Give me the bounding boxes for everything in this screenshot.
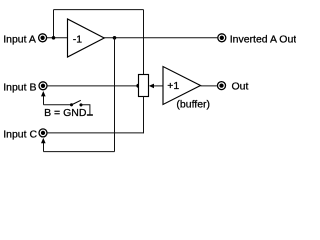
wire: potentiometer bottom to Input C run [143,97,145,134]
wire: inverted A drop line [114,38,116,152]
node: junction dot on Input A wire [52,36,56,40]
terminal: Input A [39,34,47,42]
switch SW1 right contact [79,103,82,106]
svg-text:Input A: Input A [3,34,36,46]
svg-text:Input B: Input B [3,81,36,93]
wire: riser up to Input C terminal [43,140,45,152]
svg-text:B = GND: B = GND [44,107,87,119]
node: junction dot at potentiometer tap [136,84,140,88]
potentiometer VR1 body [139,75,149,97]
wire: top rail drop to potentiometer top [143,10,145,75]
wire: bottom return run to Input C [44,151,115,153]
terminal: Out [218,82,226,90]
svg-text:(buffer): (buffer) [176,98,210,110]
svg-text:+1: +1 [167,80,179,92]
svg-text:Out: Out [232,80,249,92]
wire: Input C to potentiometer bottom [47,132,143,134]
svg-text:-1: -1 [73,33,82,45]
terminal: Input C [39,129,47,137]
svg-text:Input C: Input C [3,128,37,140]
wire: top rail [54,9,144,11]
ground [87,114,93,116]
wire: switch branch horizontal [44,104,72,106]
wire: switch to ground stub [81,105,90,115]
node: junction dot on inverter output [113,36,117,40]
switch SW1 blade (open) [72,100,81,104]
wire: Input B to potentiometer center tap [47,85,138,87]
wire: inverter output to Inverted A Out terminal [104,37,217,39]
switch SW1 left contact [70,103,73,106]
svg-text:Inverted A Out: Inverted A Out [230,34,296,46]
arrow into Input B terminal [41,91,46,96]
amplifier A1 (-1 inverter) [68,19,105,57]
wire: vertical riser from Input A node to top rail [53,10,55,38]
amplifier A2 (+1 buffer) [163,67,201,105]
wire: buffer output to Out terminal [201,85,217,87]
terminal: Inverted A Out [218,34,226,42]
potentiometer wiper arrow [149,84,163,89]
arrow into Input C terminal [41,138,46,143]
wire: Input A to inverter input [47,37,68,39]
wire: Input B terminal down to switch branch [43,93,45,105]
terminal: Input B [39,82,47,90]
